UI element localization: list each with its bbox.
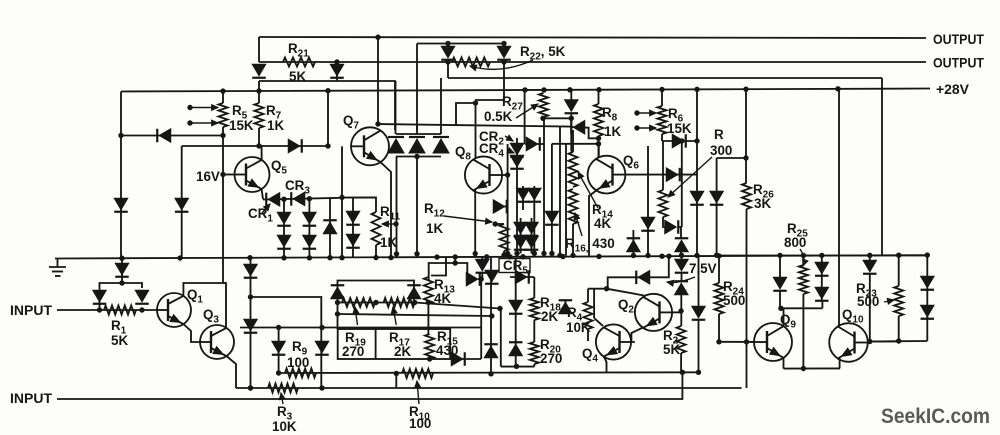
- node Q10 label: [842, 307, 864, 326]
- diode y359: [451, 352, 465, 366]
- node R7 value: [267, 118, 284, 133]
- wire R19R17 line: [338, 302, 415, 304]
- junction on +28V rail: [835, 86, 840, 91]
- wire x927 column: [926, 255, 928, 341]
- wire x491 column: [490, 258, 492, 374]
- wire x544 mid: [543, 118, 545, 253]
- junction R22 left: [445, 59, 450, 64]
- svg-text:OUTPUT: OUTPUT: [933, 56, 985, 71]
- junction R13 y302: [426, 300, 431, 305]
- diode CR4 sym: [510, 155, 524, 169]
- wire Q9 base stub: [747, 341, 755, 343]
- diode x523 pair a: [516, 188, 530, 202]
- wire x500 lower: [500, 309, 502, 367]
- resistor R13: [424, 277, 433, 304]
- diode box right: [407, 285, 421, 299]
- resistor R5: [219, 103, 228, 127]
- arrow R16: [574, 213, 582, 236]
- junction y118 right: [569, 116, 574, 121]
- node R17 value: [394, 344, 411, 359]
- wire upper bus y78: [448, 77, 882, 79]
- junction R19-R17: [373, 300, 378, 305]
- resistor R19: [342, 298, 375, 307]
- wire Q10 collector: [838, 88, 840, 326]
- node 7.5V label: [689, 261, 717, 276]
- node OUTPUT 2 label: [933, 56, 985, 71]
- junction y302 ext: [497, 306, 502, 311]
- junction Q7 collector: [375, 121, 380, 126]
- diode R300 bottom: [665, 220, 679, 234]
- diode x681 b: [675, 281, 689, 295]
- wire R11 top: [342, 197, 376, 212]
- svg-text:15K: 15K: [667, 121, 692, 136]
- wire x309 column: [308, 199, 310, 258]
- svg-text:270: 270: [342, 344, 364, 359]
- diode x927 a: [921, 276, 935, 290]
- junction on +28V rail: [694, 87, 699, 92]
- wire Q3 collector: [223, 283, 226, 328]
- junction on +28V rail: [541, 87, 546, 92]
- node R23 value: [857, 294, 879, 309]
- junction Q9 coll: [778, 306, 783, 311]
- resistor R21: [283, 58, 315, 67]
- node R19 value: [342, 344, 364, 359]
- pot arrow R17: [391, 307, 397, 325]
- wire x524 stub: [524, 90, 526, 144]
- diode x322: [315, 341, 329, 355]
- wire CR line y199: [263, 198, 342, 200]
- diode x521 low b: [514, 236, 528, 250]
- junction diode row: [414, 154, 419, 159]
- wire x717 vertical: [716, 158, 718, 255]
- wire x633 column: [632, 230, 634, 256]
- diode Q6 base: [666, 168, 680, 182]
- junction bus x284: [281, 255, 286, 260]
- junction Q5 base: [220, 172, 225, 177]
- diode x822 b: [815, 287, 829, 301]
- junction on +28V rail: [325, 88, 330, 93]
- resistor R22: [452, 58, 490, 67]
- junction x869 top: [867, 253, 872, 258]
- wire Q2 emitter: [631, 328, 643, 343]
- wire Q5 emitter: [262, 189, 263, 199]
- svg-text:3K: 3K: [754, 196, 771, 211]
- wire R25 bottom: [802, 294, 804, 369]
- wire R12 pointer: [444, 216, 492, 224]
- junction on ground bus: [666, 253, 671, 258]
- junction y388 b: [319, 385, 324, 390]
- diode x284 a: [277, 212, 291, 226]
- diode y141: [672, 134, 686, 148]
- svg-text:5K: 5K: [111, 333, 128, 348]
- wire x507 column: [507, 144, 509, 254]
- diode bridge right: [135, 290, 149, 304]
- svg-text:16V: 16V: [196, 169, 220, 184]
- node Q7 label: [343, 113, 359, 132]
- wire left vertical x121: [120, 92, 122, 136]
- junction CR y199 a: [281, 197, 286, 202]
- junction bus x417: [414, 251, 419, 256]
- wire R8 top: [598, 89, 600, 104]
- svg-text:100: 100: [409, 416, 431, 431]
- junction y141: [694, 138, 699, 143]
- wire x682 vertical: [681, 141, 683, 227]
- resistor R300 pot: [659, 190, 668, 217]
- wire x353 column: [352, 197, 354, 257]
- wire x594 column: [593, 289, 595, 318]
- junction y141 x682: [679, 138, 684, 143]
- node R14 value: [594, 216, 611, 231]
- wire x648 column: [647, 146, 649, 256]
- diode x534 pair a: [528, 188, 542, 202]
- wire zener stub: [681, 255, 683, 281]
- pot arrow R5 b: [190, 120, 218, 126]
- resistor R25: [799, 265, 808, 294]
- junction Q9 base: [744, 339, 749, 344]
- junction y368: [801, 366, 806, 371]
- resistor R12: [500, 224, 509, 251]
- diode bridge left: [93, 290, 107, 304]
- node OUTPUT 1 label: [933, 32, 985, 47]
- wire INPUT2: [57, 373, 682, 399]
- wire vertical x417: [416, 44, 418, 131]
- svg-text:300: 300: [710, 143, 732, 158]
- junction bridge right: [139, 307, 144, 312]
- zener 7.5V: [675, 259, 689, 273]
- diode x552: [545, 211, 559, 225]
- node R9 label: [292, 339, 308, 358]
- wire Q9 collector: [780, 290, 784, 327]
- svg-text:2K: 2K: [541, 309, 558, 324]
- junction Q2 coll node: [604, 286, 609, 291]
- wire x446 hook: [431, 258, 446, 276]
- junction bus x534: [532, 251, 537, 256]
- svg-text:430: 430: [436, 343, 458, 358]
- wire R24 bottom: [718, 314, 720, 342]
- node R15 label: [437, 329, 458, 348]
- node R8 value: [604, 124, 621, 139]
- node CR2 label: [479, 129, 504, 148]
- arrow R23: [884, 298, 894, 304]
- junction bus x391: [388, 255, 393, 260]
- svg-text:1K: 1K: [426, 221, 443, 236]
- wire x534 vertical: [533, 277, 535, 367]
- svg-text:Q4: Q4: [582, 346, 598, 365]
- svg-text:1K: 1K: [267, 118, 284, 133]
- diode x780: [773, 277, 787, 291]
- diode x122: [115, 263, 129, 277]
- junction on +28V rail: [220, 88, 225, 93]
- resistor R27: [539, 93, 548, 117]
- wire R4 top: [587, 289, 589, 302]
- junction on ground bus: [520, 254, 525, 259]
- diode y279: [466, 272, 480, 286]
- node R2 label: [663, 328, 679, 347]
- node R1 label: [111, 318, 127, 337]
- node R4 value: [566, 320, 591, 335]
- junction on ground bus: [560, 254, 565, 259]
- junction R23 top: [896, 253, 901, 258]
- svg-text:R12: R12: [424, 201, 445, 220]
- node Q3 label: [203, 307, 219, 326]
- wire R5 bottom to Q5 base: [222, 127, 224, 283]
- svg-text:R: R: [714, 127, 724, 142]
- node R21 value: [289, 69, 306, 84]
- resistor R1: [104, 306, 136, 315]
- diode x278: [272, 341, 286, 355]
- wire x250 branch: [251, 297, 322, 388]
- wire x417 upper: [416, 124, 418, 134]
- wire three-diode bottom: [396, 156, 441, 158]
- resistor R23: [894, 286, 903, 316]
- svg-text:Q3: Q3: [203, 307, 219, 326]
- wire x566 column: [565, 144, 567, 255]
- wire R27 bottom: [542, 117, 544, 118]
- wire x121 lower: [120, 136, 122, 258]
- node CR5 label: [503, 258, 528, 277]
- node R9 value: [287, 355, 309, 370]
- wire x250 upper: [250, 258, 252, 388]
- wire x523 column: [522, 186, 524, 210]
- junction x278 top: [276, 325, 281, 330]
- node R6 label: [668, 106, 684, 125]
- wire x482 stub: [481, 257, 483, 279]
- junction bus x517: [514, 251, 519, 256]
- wire R21 bottom: [258, 37, 260, 62]
- transistor Q10: [829, 323, 868, 362]
- junction R17 right: [412, 300, 417, 305]
- diode on y135: [157, 129, 171, 143]
- wire line y315: [338, 314, 492, 316]
- diode CR right of R21: [330, 64, 344, 78]
- junction y366: [514, 364, 519, 369]
- resistor R7: [255, 103, 264, 128]
- diode CR left of R21: [252, 64, 266, 78]
- node R5 value: [229, 118, 254, 133]
- node R15 value: [436, 343, 458, 358]
- node R10 label: [409, 404, 430, 423]
- node R11 value: [380, 235, 397, 250]
- wire R6 top: [661, 89, 663, 106]
- wire x521 lowcol: [520, 218, 522, 253]
- wire OUTPUT rail 2: [259, 61, 926, 63]
- wire Q4 collector: [594, 318, 603, 326]
- wire y308 line: [780, 307, 822, 309]
- wire Q9 emitter: [783, 357, 785, 369]
- junction INPUT2 top: [680, 370, 685, 375]
- label box divider: [375, 329, 377, 359]
- diode x565 up: [559, 300, 573, 314]
- svg-text:R8: R8: [602, 105, 618, 124]
- junction y146 right: [325, 143, 330, 148]
- wire y366 stub: [501, 366, 535, 368]
- diode x531 low a: [525, 222, 539, 236]
- node R18 label: [540, 295, 561, 314]
- wire x441 upper: [440, 78, 442, 134]
- resistor R11: [372, 212, 381, 245]
- node R18 value: [541, 309, 558, 324]
- node R11 label: [380, 204, 401, 223]
- diode x648: [641, 217, 655, 231]
- svg-text:Q2: Q2: [618, 297, 634, 316]
- junction y279: [479, 276, 484, 281]
- wire +28V rail: [121, 89, 930, 92]
- junction CR y199 b: [307, 196, 312, 201]
- junction R9 left: [276, 370, 281, 375]
- junction bus x309: [307, 255, 312, 260]
- diode x699 low: [692, 306, 706, 320]
- wire diode x337 stub: [336, 62, 338, 81]
- svg-text:INPUT: INPUT: [10, 303, 53, 318]
- wire x552 upper: [551, 144, 553, 210]
- transistor Q1: [157, 293, 191, 327]
- wire R11 bottom: [375, 245, 377, 258]
- diode x250 b: [244, 319, 258, 333]
- wire x552 column: [551, 210, 553, 253]
- svg-text:270: 270: [540, 351, 562, 366]
- diode left of R22: [441, 46, 455, 60]
- diode x822 a: [815, 262, 829, 276]
- wire R12 stub: [495, 223, 504, 225]
- junction R22 right: [501, 59, 506, 64]
- junction R5 arrow a: [187, 105, 192, 110]
- node R8 label: [602, 105, 618, 124]
- wire x571 to R14: [571, 118, 573, 152]
- node R24 label: [723, 279, 744, 298]
- node R20 value: [540, 351, 562, 366]
- resistor R20: [530, 342, 539, 364]
- wire R21 lower rail: [259, 81, 395, 130]
- junction R13 top corner: [453, 260, 458, 265]
- junction R25 top: [801, 253, 806, 258]
- node R19 label: [345, 330, 366, 349]
- wire y143 from R8: [552, 143, 599, 145]
- wire R13 top: [429, 257, 456, 280]
- junction R6 arrow b: [634, 125, 639, 130]
- wire Q4 emitter: [604, 357, 607, 373]
- junction bus x504: [501, 252, 506, 257]
- node R27 label: [502, 94, 523, 113]
- junction bus x544: [541, 251, 546, 256]
- node R1 value: [111, 333, 128, 348]
- wire box bottom ext: [450, 358, 481, 360]
- junction bus x342: [339, 255, 344, 260]
- diode y144 horiz: [526, 137, 540, 151]
- wire y118 line: [543, 117, 571, 119]
- wire x531 lowcol: [531, 218, 533, 253]
- junction bus x397: [394, 251, 399, 256]
- svg-text:Q7: Q7: [343, 113, 359, 132]
- node R12 value: [426, 221, 443, 236]
- wire bridge split: [100, 283, 143, 310]
- arrow CR4: [507, 148, 514, 153]
- node INPUT label 2: [10, 391, 53, 406]
- junction R27 bottom: [540, 116, 545, 121]
- wire Q10 base: [868, 341, 898, 343]
- node R26 label: [753, 182, 774, 201]
- junction bus x376: [373, 255, 378, 260]
- arrow 7.5V: [667, 277, 695, 286]
- wire Q1 collector: [183, 283, 226, 296]
- transistor Q5: [235, 157, 270, 192]
- junction y388 a: [248, 385, 253, 390]
- wire Q6 base wire: [625, 174, 697, 176]
- node R6 value: [667, 121, 692, 136]
- resistor R6: [658, 106, 667, 134]
- node R22 label: [520, 44, 566, 63]
- arrow R27: [516, 104, 538, 118]
- wire x869 column: [869, 255, 871, 341]
- wire x342 lower: [341, 197, 343, 257]
- pot arrow R6 b: [637, 125, 656, 131]
- wire R12 bottom: [503, 251, 505, 255]
- wire R22 top box: [417, 43, 504, 45]
- wire Q6 collector: [598, 143, 600, 157]
- junction on +28V rail: [256, 88, 261, 93]
- diode x491 a: [485, 270, 499, 284]
- wire R5 top: [222, 91, 224, 103]
- wire x515 column: [515, 300, 517, 367]
- junction bus x717: [714, 253, 719, 258]
- diode x633: [627, 238, 641, 252]
- arrow R14: [578, 172, 598, 208]
- ground: [49, 259, 66, 277]
- junction bridge left: [97, 307, 102, 312]
- junction bus x507: [505, 251, 510, 256]
- svg-text:Q8: Q8: [455, 144, 471, 163]
- diode y127: [571, 121, 585, 135]
- junction R22 left top: [445, 41, 450, 46]
- junction on ground bus: [507, 254, 512, 259]
- junction bus x330: [327, 255, 332, 260]
- wire ground bus: [55, 255, 926, 258]
- transistor Q7: [351, 127, 389, 165]
- junction bus x475: [473, 251, 478, 256]
- node R24 value: [723, 293, 745, 308]
- wire x746 upper: [745, 88, 747, 183]
- node R26 value: [754, 196, 771, 211]
- node R21 label: [288, 41, 309, 60]
- diode x284 b: [277, 235, 291, 249]
- wire R2 bottom: [680, 353, 682, 372]
- diode x482: [476, 259, 490, 273]
- wire R16 bottom: [572, 224, 574, 255]
- svg-text:5K: 5K: [663, 342, 680, 357]
- pot arrow R6 a: [637, 110, 656, 116]
- node R4 label: [567, 305, 583, 324]
- wire y388 line: [236, 387, 742, 389]
- pot arrow R19: [353, 307, 359, 325]
- diode x717: [710, 191, 724, 205]
- wire x250 lower dot: [248, 385, 253, 390]
- wire box top left diode: [338, 281, 415, 288]
- wire Q5 base: [223, 174, 235, 176]
- node Q8 label: [455, 144, 471, 163]
- wire R7 top: [258, 91, 260, 103]
- node R10 value: [409, 416, 431, 431]
- node CR1 label: [248, 206, 273, 225]
- svg-text:4K: 4K: [434, 291, 451, 306]
- wire x681 mid: [680, 294, 682, 326]
- node +28V label: [936, 82, 969, 97]
- diode x515 a: [509, 300, 523, 314]
- diode on x181: [175, 198, 189, 212]
- wire y279 stub: [478, 278, 481, 280]
- wire R13 right branch: [455, 263, 467, 279]
- wire x448 down: [447, 62, 449, 78]
- wire x417 to bus: [416, 157, 418, 254]
- junction bus x560: [557, 253, 562, 258]
